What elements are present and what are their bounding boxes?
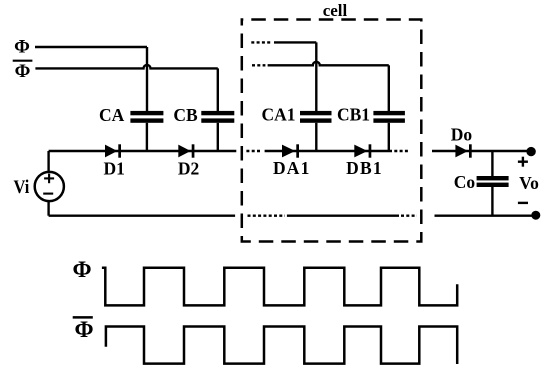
cell box dashed [242, 20, 421, 242]
waveform PHI label [72, 257, 91, 282]
wire Vi bottom [47, 201, 49, 216]
svg-text:Vi: Vi [14, 177, 30, 198]
svg-text:Vo: Vo [519, 173, 539, 193]
capacitor CB label [173, 105, 198, 125]
svg-text:Φ: Φ [14, 37, 30, 58]
capacitor Co label [454, 172, 476, 192]
diode Do label [451, 125, 473, 145]
wire bottom rail right [435, 214, 536, 216]
waveform PHI trace [102, 268, 457, 306]
svg-text:Φ: Φ [15, 61, 31, 82]
dots bottom rail at cell left [248, 214, 286, 216]
wire bottom rail left [49, 214, 236, 216]
waveform PHIbar overline [73, 316, 93, 319]
terminal minus node [531, 211, 540, 220]
node PHIbar label [15, 61, 31, 82]
waveform PHIbar label [74, 317, 93, 342]
wire top rail right [432, 150, 531, 152]
capacitor CB1 label [337, 105, 370, 125]
svg-text:D2: D2 [178, 159, 199, 179]
capacitor CA1 label [261, 105, 295, 125]
wire top rail left [49, 150, 237, 152]
svg-text:CB: CB [173, 105, 198, 125]
capacitor CB [201, 111, 234, 123]
diode D1 label [104, 159, 125, 179]
cell label [323, 1, 348, 20]
wire cell phibar line with hop [268, 62, 389, 65]
diode Do [455, 144, 471, 157]
wire phi horizontal [35, 46, 147, 48]
source Vi label [14, 177, 30, 198]
capacitor CA [130, 111, 163, 123]
dots cell phi line [251, 41, 272, 43]
wire cell phibar vertical to CB1 [388, 65, 390, 111]
diode DA1 label [273, 158, 311, 178]
output minus label [518, 202, 528, 204]
diode DB1 [354, 144, 371, 157]
svg-text:DA1: DA1 [273, 158, 311, 178]
output Vo label [519, 173, 539, 193]
node PHI label [14, 37, 30, 58]
diode D1 [105, 144, 121, 157]
dots bottom rail at cell right [401, 214, 417, 216]
wire cell phi line [274, 41, 316, 43]
output plus label [518, 157, 528, 167]
svg-text:Φ: Φ [74, 317, 93, 342]
svg-text:D1: D1 [104, 159, 125, 179]
wire cell rail [265, 150, 392, 152]
dots top rail at cell right [394, 150, 409, 152]
wire CA1 to rail [315, 123, 317, 151]
svg-text:CA1: CA1 [261, 105, 295, 125]
source Vi [35, 172, 64, 201]
wire cell phi vertical to CA1 [315, 42, 317, 111]
svg-text:CB1: CB1 [337, 105, 370, 125]
capacitor CB1 [373, 111, 405, 123]
dots top rail at cell left [246, 150, 261, 152]
wire Co to bottom rail [491, 187, 493, 216]
wire phi vertical to CA [146, 47, 148, 111]
svg-text:cell: cell [323, 1, 348, 20]
diode D2 label [178, 159, 199, 179]
capacitor CA1 [300, 111, 332, 123]
capacitor CA label [99, 105, 125, 125]
diode DA1 [282, 144, 299, 157]
waveform PHIbar trace [106, 327, 457, 365]
capacitor Co [491, 151, 493, 176]
wire bottom rail cell [287, 214, 399, 216]
svg-text:CA: CA [99, 105, 125, 125]
svg-text:Co: Co [454, 172, 476, 192]
svg-text:DB1: DB1 [346, 158, 383, 178]
dots cell phibar line [252, 64, 265, 66]
diode DB1 label [346, 158, 383, 178]
wire CA to rail [146, 123, 148, 151]
wire CB to rail [217, 123, 219, 151]
wire phibar horizontal with hop [35, 65, 217, 69]
wire phibar vertical to CB [217, 68, 219, 111]
diode D2 [178, 144, 194, 157]
wire CB1 to rail [388, 123, 390, 151]
svg-text:Φ: Φ [72, 257, 91, 282]
wire Vi top [47, 151, 49, 172]
node PHIbar overline [13, 60, 33, 62]
terminal plus node [526, 147, 535, 156]
svg-text:Do: Do [451, 125, 473, 145]
